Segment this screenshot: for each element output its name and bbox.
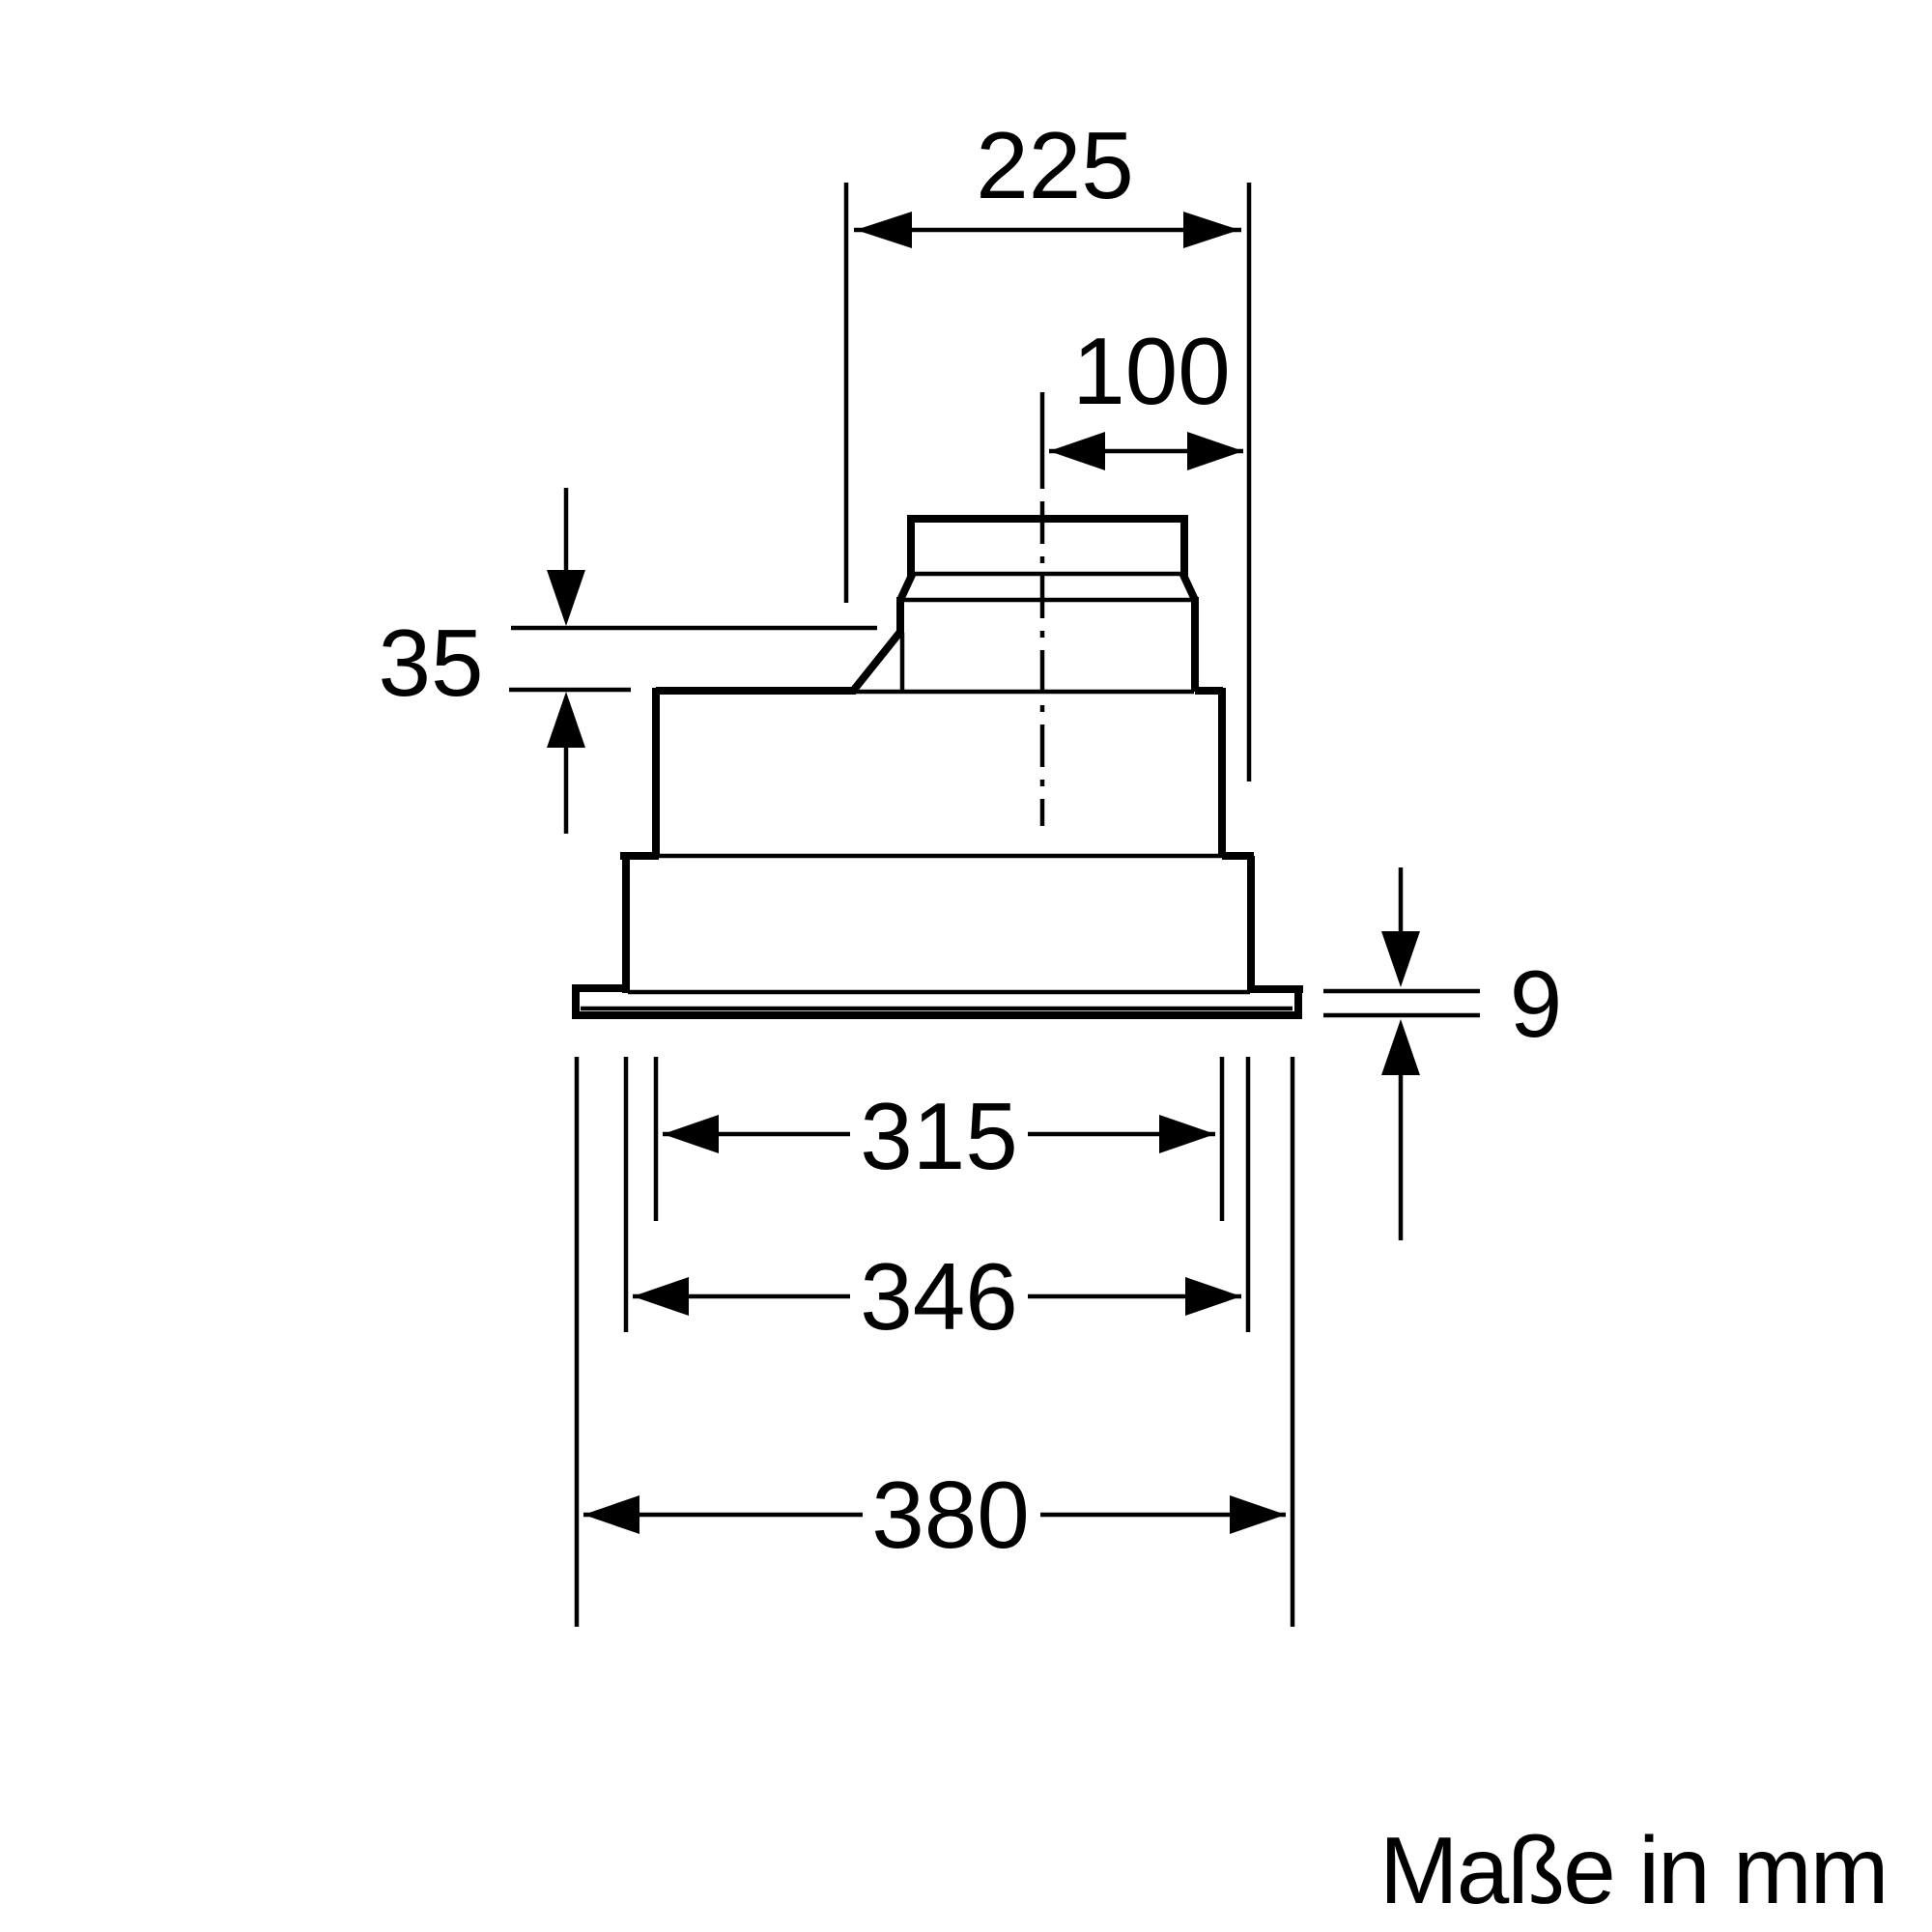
lower body left edge	[622, 856, 630, 993]
arrow 315 right	[1159, 1115, 1215, 1153]
dim 380 line right	[1040, 1513, 1286, 1518]
arrow 346 right	[1185, 1277, 1241, 1316]
arrow 225 right	[1183, 212, 1239, 248]
duct hidden left edge	[900, 633, 905, 692]
arrow 380 right	[1230, 1495, 1286, 1534]
upper body left edge	[652, 688, 660, 856]
dim 100 line	[1049, 449, 1243, 454]
dim 315 line right	[1028, 1132, 1215, 1137]
svg-text:380: 380	[871, 1462, 1030, 1568]
right step upper/lower body	[1222, 852, 1254, 860]
svg-text:35: 35	[378, 610, 483, 716]
dim 346 left extension	[624, 1057, 629, 1332]
collar inner line lower	[901, 598, 1194, 603]
flange inner lip line	[581, 1007, 1293, 1011]
dim 9 bottom extension	[1323, 1013, 1480, 1018]
duct collar right flare	[1182, 573, 1195, 600]
arrow 346 left	[633, 1277, 689, 1316]
arrow 315 left	[663, 1115, 719, 1153]
dim 380 left extension	[575, 1057, 580, 1627]
flange top left thick	[572, 984, 630, 992]
dim 315 line left	[663, 1132, 850, 1137]
left step upper/lower body	[620, 852, 659, 860]
duct collar outline	[911, 519, 1184, 576]
lower body top thin line	[659, 854, 1222, 859]
flange bottom	[572, 1011, 1302, 1019]
svg-text:100: 100	[1072, 318, 1231, 424]
duct right lower edge	[1191, 597, 1199, 692]
collar inner line upper	[914, 572, 1181, 577]
svg-text:315: 315	[860, 1083, 1018, 1189]
svg-text:9: 9	[1510, 951, 1563, 1057]
duct left lower edge	[896, 597, 904, 635]
dim 9 upper arrow shaft	[1399, 867, 1404, 933]
body top left thick edge	[656, 687, 856, 695]
svg-text:225: 225	[976, 112, 1134, 218]
dim 35 top extension	[511, 626, 877, 631]
body top thin line	[856, 690, 1194, 695]
dim 35 upper arrow shaft	[564, 488, 569, 572]
dim 346 right extension	[1246, 1057, 1251, 1332]
arrow 380 left	[583, 1495, 639, 1534]
upper body right edge	[1218, 688, 1226, 856]
arrow 35 up	[547, 692, 585, 748]
dim 346 line right	[1028, 1294, 1241, 1299]
flange top right thick	[1250, 985, 1303, 993]
dim 9 top extension	[1323, 989, 1480, 994]
dim 225 left extension	[844, 183, 849, 603]
right step at duct base	[1195, 687, 1223, 695]
dim 9 lower arrow shaft	[1399, 1073, 1404, 1240]
dim 346 line left	[633, 1294, 850, 1299]
lower body right edge	[1247, 856, 1255, 991]
arrow 225 left	[856, 212, 912, 248]
arrow 9 up	[1381, 1019, 1420, 1075]
dim 35 lower arrow shaft	[564, 746, 569, 834]
duct collar left flare	[900, 573, 913, 600]
dim 35 bottom extension	[509, 688, 631, 693]
dim 380 line left	[583, 1513, 863, 1518]
flange right cap	[1294, 985, 1302, 1018]
arrow 100 left	[1049, 432, 1105, 470]
dim 315 left extension	[654, 1057, 659, 1221]
dim 225 line	[854, 228, 1241, 233]
svg-text:346: 346	[860, 1243, 1018, 1350]
arrow 9 down	[1381, 931, 1420, 987]
dim 315 right extension	[1220, 1057, 1225, 1221]
flange top thin line	[628, 990, 1250, 995]
dim 225 right extension	[1247, 183, 1252, 781]
flange left cap	[572, 985, 580, 1018]
arrow 100 right	[1187, 432, 1243, 470]
svg-text:Maße in mm: Maße in mm	[1379, 1817, 1888, 1923]
arrow 35 down	[547, 570, 585, 626]
slanted deflector edge	[854, 632, 900, 690]
centerline dash-dot	[1040, 392, 1045, 489]
dim 380 right extension	[1291, 1057, 1295, 1627]
